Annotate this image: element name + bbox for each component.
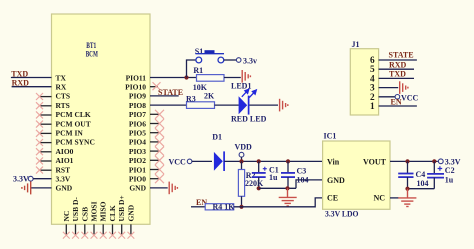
svg-text:2K: 2K <box>204 91 215 100</box>
no-connect X marks left pins <box>36 93 43 174</box>
svg-text:PIO5: PIO5 <box>129 129 146 138</box>
wire ground bus under C1 C3 <box>259 187 296 189</box>
svg-text:GND: GND <box>327 176 345 185</box>
no-connect X marks right pins <box>153 82 165 183</box>
ground right of block (rotated) <box>169 182 177 195</box>
junction C3 top <box>286 159 290 163</box>
svg-text:AIO0: AIO0 <box>56 147 74 156</box>
wire J1 pin4 <box>379 77 414 79</box>
svg-text:1u: 1u <box>445 176 454 185</box>
svg-text:PCM IN: PCM IN <box>56 129 84 138</box>
ground right of R1 (rotated) <box>242 70 250 83</box>
capacitor C1 <box>258 161 260 172</box>
svg-text:PIO10: PIO10 <box>125 83 146 92</box>
ground middle <box>287 188 289 197</box>
svg-text:CE: CE <box>327 194 338 203</box>
svg-text:3.3V: 3.3V <box>445 157 461 166</box>
junction VDD <box>239 159 243 163</box>
wire VCC to D1 <box>192 160 212 162</box>
IC1 regulator body <box>323 141 390 209</box>
power port 3.3v top <box>236 58 241 63</box>
wire PIO11 to junction and R1 <box>150 77 197 79</box>
svg-text:PIO4: PIO4 <box>129 138 146 147</box>
svg-text:AIO1: AIO1 <box>56 156 74 165</box>
svg-text:PIO11: PIO11 <box>126 73 147 82</box>
svg-text:R4 1K: R4 1K <box>213 203 236 212</box>
ground right under C4 <box>407 189 409 198</box>
junction ground bus <box>285 186 289 190</box>
junction R2/EN wire <box>239 205 243 209</box>
svg-text:STATE: STATE <box>389 51 414 60</box>
svg-text:PCM OUT: PCM OUT <box>56 119 91 128</box>
resistor R2 vertical <box>241 161 243 169</box>
svg-text:EN: EN <box>391 98 402 107</box>
junction C4 top <box>405 159 409 163</box>
LED arrows <box>242 89 256 97</box>
wire RX <box>12 86 52 88</box>
wire S1 to 3.3v port <box>224 59 237 61</box>
wire VDD stub <box>241 157 243 161</box>
svg-text:1u: 1u <box>269 173 278 182</box>
svg-text:104: 104 <box>417 179 429 188</box>
wire LED cathode to ground <box>249 104 278 106</box>
wire GND left pin <box>31 187 52 189</box>
svg-text:MOSI: MOSI <box>90 201 99 221</box>
svg-text:3.3V: 3.3V <box>56 175 71 184</box>
svg-text:NC: NC <box>373 194 385 203</box>
svg-text:220K: 220K <box>245 179 264 188</box>
svg-text:RXD: RXD <box>12 79 30 88</box>
wire J1 pin6 <box>379 59 417 61</box>
svg-text:3.3V LDO: 3.3V LDO <box>325 210 359 219</box>
svg-text:C4: C4 <box>416 170 426 179</box>
connector J1 body <box>350 49 378 115</box>
resistor R3 <box>187 102 215 109</box>
IC BT1 module body <box>52 14 151 224</box>
wire ground bus under C4 C2 <box>408 188 435 190</box>
svg-text:USB D+: USB D+ <box>117 195 126 221</box>
svg-text:VCC: VCC <box>401 93 419 102</box>
svg-text:Vin: Vin <box>327 158 340 167</box>
svg-text:RXD: RXD <box>389 60 407 69</box>
svg-text:RST: RST <box>56 165 71 174</box>
svg-text:PIO6: PIO6 <box>129 119 146 128</box>
bottom pin stubs <box>66 224 131 236</box>
svg-text:CLK: CLK <box>108 205 117 221</box>
svg-text:C3: C3 <box>297 167 307 176</box>
svg-text:VOUT: VOUT <box>363 158 387 167</box>
svg-text:STATE: STATE <box>158 88 183 97</box>
svg-text:TX: TX <box>56 73 67 82</box>
wire D1 to Vin <box>224 160 322 162</box>
svg-text:GND: GND <box>126 204 135 221</box>
wire PIO9 stub <box>150 95 179 97</box>
wire J1 pin3 <box>379 87 399 89</box>
svg-text:J1: J1 <box>352 40 360 49</box>
ground left (rotated) <box>22 181 31 194</box>
wire PIO8 to R3 <box>150 104 187 106</box>
svg-text:GND: GND <box>56 184 73 193</box>
svg-text:PCM CLK: PCM CLK <box>56 110 91 119</box>
resistor R1 <box>197 75 225 82</box>
capacitor C4 <box>407 161 409 173</box>
right pin stubs <box>150 87 160 179</box>
svg-text:IC1: IC1 <box>324 132 337 141</box>
svg-text:NC: NC <box>62 211 71 222</box>
wire TX <box>11 77 52 79</box>
junction PIO11/S1/R1 <box>184 75 188 79</box>
svg-text:C2: C2 <box>445 166 455 175</box>
svg-text:PIO2: PIO2 <box>129 156 146 165</box>
wire NC pin <box>390 197 399 199</box>
svg-text:3.3V: 3.3V <box>13 174 29 183</box>
svg-text:VDD: VDD <box>235 142 253 151</box>
svg-text:D1: D1 <box>212 133 222 142</box>
no-connect X marks bottom pins <box>63 232 134 239</box>
wire GND right pin <box>150 187 168 189</box>
wire IC1 GND pin <box>296 180 323 188</box>
wire J1 pin5 <box>379 68 414 70</box>
junction right ground bus <box>405 187 409 191</box>
svg-text:RX: RX <box>56 83 67 92</box>
junction C1 bottom <box>257 186 261 190</box>
svg-text:CTS: CTS <box>56 92 71 101</box>
capacitor C3 <box>287 161 289 172</box>
wire J1 pin1 <box>379 105 417 107</box>
svg-text:1: 1 <box>370 102 375 112</box>
capacitor C2 <box>433 161 435 173</box>
wire J1 pin2 <box>379 96 396 98</box>
ground right of LED (rotated) <box>280 99 288 112</box>
svg-text:CSB: CSB <box>80 207 89 222</box>
svg-text:PIO0: PIO0 <box>129 175 146 184</box>
junction C2 top <box>432 159 436 163</box>
svg-text:RTS: RTS <box>56 101 70 110</box>
wire R4 to CE <box>234 198 323 207</box>
power port 3.3V right <box>438 159 443 164</box>
svg-text:PIO9: PIO9 <box>129 92 146 101</box>
svg-text:USB D-: USB D- <box>71 197 80 222</box>
svg-text:PIO1: PIO1 <box>129 165 146 174</box>
svg-text:BCM: BCM <box>86 49 98 58</box>
ground J1 pin3 (rotated) <box>400 81 408 94</box>
wire R3 to LED <box>215 104 239 106</box>
svg-text:GND: GND <box>129 184 146 193</box>
resistor R4 <box>205 204 234 210</box>
wire R1 to ground <box>224 77 241 79</box>
wire 3.3V pin <box>33 178 51 180</box>
wire junction up to S1 <box>187 60 196 78</box>
wire EN to R4 <box>191 206 205 208</box>
svg-text:R1: R1 <box>193 66 203 75</box>
svg-text:PIO3: PIO3 <box>129 147 146 156</box>
svg-text:PIO8: PIO8 <box>129 101 146 110</box>
svg-text:R3: R3 <box>186 94 196 103</box>
svg-text:RED LED: RED LED <box>231 114 267 123</box>
svg-text:VCC: VCC <box>169 157 187 166</box>
svg-text:3.3v: 3.3v <box>243 56 257 65</box>
wire VOUT <box>390 160 438 162</box>
power port VCC J1 <box>395 95 400 100</box>
svg-text:PIO7: PIO7 <box>129 110 146 119</box>
svg-text:MISO: MISO <box>99 201 108 221</box>
svg-text:PCM SYNC: PCM SYNC <box>56 138 95 147</box>
svg-text:TXD: TXD <box>11 69 28 78</box>
junction C1 top <box>257 159 261 163</box>
left pin stubs <box>40 97 52 171</box>
svg-text:TXD: TXD <box>389 70 406 79</box>
svg-text:S1: S1 <box>195 47 203 56</box>
